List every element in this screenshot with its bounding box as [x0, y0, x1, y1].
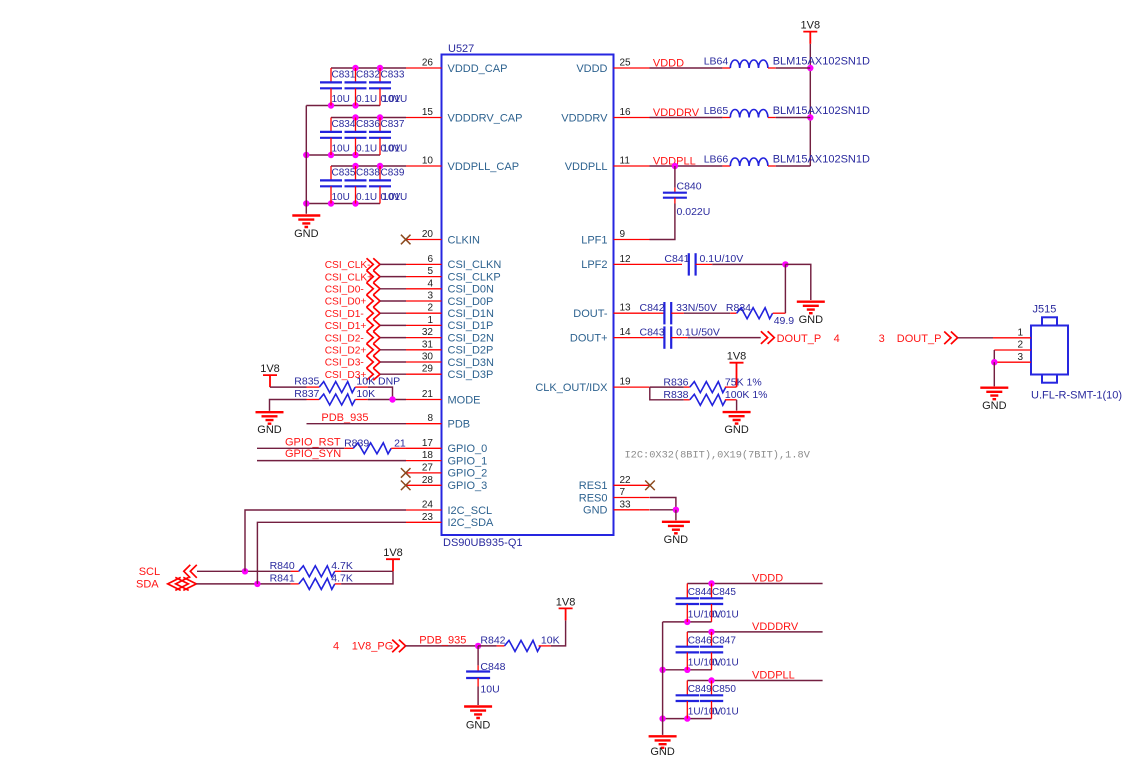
resistor R841 4.7K	[291, 583, 299, 585]
pin 32 CSI_D2N (left)	[406, 337, 442, 339]
capacitor C837	[379, 118, 381, 132]
svg-text:19: 19	[620, 377, 632, 388]
svg-text:C833: C833	[381, 70, 405, 81]
pin 27 GPIO_2 (left)	[406, 472, 442, 474]
svg-text:10K: 10K	[356, 388, 375, 400]
svg-text:20: 20	[422, 229, 434, 240]
wire CSI_CLK+ to pin	[380, 276, 406, 278]
svg-text:GND: GND	[466, 720, 491, 732]
wire pin19 to R836	[650, 386, 684, 388]
ground symbol RES0/GND	[662, 522, 690, 534]
pin 18 GPIO_1 (left)	[406, 460, 442, 462]
wire C848 to ground	[477, 687, 479, 706]
svg-text:7: 7	[620, 487, 626, 498]
svg-text:C839: C839	[381, 168, 405, 179]
svg-text:CSI_CLK-: CSI_CLK-	[325, 260, 371, 271]
svg-text:0.01U: 0.01U	[712, 658, 739, 669]
pin 8 PDB (left)	[406, 423, 442, 425]
capacitor C847	[711, 632, 713, 647]
svg-text:GPIO_1: GPIO_1	[448, 455, 488, 467]
svg-text:GPIO_3: GPIO_3	[448, 480, 488, 492]
svg-text:PDB_935: PDB_935	[321, 412, 368, 424]
svg-text:4: 4	[333, 640, 339, 652]
svg-text:27: 27	[422, 462, 434, 473]
svg-text:21: 21	[422, 389, 434, 400]
svg-text:33N/50V: 33N/50V	[676, 302, 717, 314]
wire R841 up to 1V8 node	[341, 571, 393, 584]
resistor R838 100K 1%	[684, 399, 690, 401]
svg-text:0.01U: 0.01U	[712, 706, 739, 717]
wire VDDPLL to LB66	[650, 165, 723, 167]
svg-text:C834: C834	[332, 119, 356, 130]
svg-text:10K: 10K	[541, 634, 560, 646]
svg-text:DOUT+: DOUT+	[570, 332, 608, 344]
pin 2 CSI_D1N (left)	[406, 312, 442, 314]
svg-text:23: 23	[422, 512, 434, 523]
svg-text:LPF2: LPF2	[581, 259, 607, 271]
wire left bus of top-left cap bank	[305, 106, 307, 214]
svg-text:3: 3	[427, 291, 433, 302]
pin 33 GND (right)	[614, 509, 650, 511]
capacitor C834	[330, 118, 332, 132]
ground symbol below R838	[723, 412, 751, 424]
svg-text:1V8: 1V8	[556, 596, 576, 608]
svg-text:U527: U527	[448, 43, 474, 55]
svg-text:CSI_CLKP: CSI_CLKP	[448, 271, 501, 283]
wire CSI_D0+ to pin	[380, 300, 406, 302]
wire left bus of bottom-right cap bank	[662, 622, 664, 735]
wire C841 to gnd corner	[712, 263, 785, 265]
svg-text:26: 26	[422, 58, 434, 69]
svg-text:C838: C838	[356, 168, 380, 179]
capacitor C831	[330, 68, 332, 82]
capacitor C839	[379, 166, 381, 180]
svg-text:CSI_D1+: CSI_D1+	[325, 321, 367, 332]
pin 14 DOUT+ (right)	[614, 337, 650, 339]
wire to LPF2 ground	[785, 264, 810, 300]
svg-text:PDB_935: PDB_935	[419, 634, 466, 646]
svg-text:11: 11	[620, 156, 631, 167]
svg-text:DOUT_P: DOUT_P	[777, 333, 822, 345]
ground symbol bottom-right bank	[649, 736, 677, 748]
svg-text:0.1U/10V: 0.1U/10V	[700, 253, 744, 265]
svg-text:GND: GND	[257, 424, 282, 436]
wire PDB_935 to pin 8	[307, 423, 407, 425]
svg-text:10U: 10U	[332, 192, 350, 203]
svg-text:CSI_D3P: CSI_D3P	[448, 369, 494, 381]
wire CSI_D2+ to pin	[380, 349, 406, 351]
wire bottom rail VDDPLL group	[663, 718, 712, 720]
junction dots group 3	[352, 163, 358, 169]
resistor R836 75K 1%	[684, 386, 690, 388]
svg-text:1V8: 1V8	[383, 547, 403, 559]
wire top rail group 3	[331, 165, 406, 167]
wire down to ground symbol	[675, 510, 677, 521]
svg-text:R836: R836	[663, 376, 688, 388]
junction dots VDDD group	[708, 580, 714, 586]
pin 9 LPF1 (right)	[614, 239, 650, 241]
svg-text:CLK_OUT/IDX: CLK_OUT/IDX	[535, 382, 608, 394]
svg-text:32: 32	[422, 327, 434, 338]
wire CSI_D0- to pin	[380, 288, 406, 290]
junction dots VDDPLL group	[708, 677, 714, 683]
wire SCL	[197, 570, 291, 572]
svg-text:GND: GND	[650, 746, 675, 758]
svg-text:1V8: 1V8	[801, 20, 821, 32]
wire R842 to 1V8	[551, 620, 566, 646]
junction dots group 1	[352, 65, 358, 71]
power symbol 1V8 (I2C pullups)	[386, 559, 400, 571]
ground symbol LPF2	[797, 302, 825, 314]
svg-text:GND: GND	[724, 424, 749, 436]
wire CSI_CLK- to pin	[380, 263, 406, 265]
pin 30 CSI_D3N (left)	[406, 361, 442, 363]
J515 pin 1	[993, 337, 1031, 339]
svg-text:C836: C836	[356, 119, 380, 130]
resistor R840 4.7K	[291, 570, 299, 572]
svg-text:C832: C832	[356, 70, 380, 81]
power symbol 1V8 (top right)	[803, 32, 817, 44]
svg-text:R838: R838	[663, 389, 688, 401]
wire J515 to ground	[993, 362, 995, 386]
junction dot LPF2 node	[782, 261, 788, 267]
svg-text:C845: C845	[712, 587, 736, 598]
svg-text:C840: C840	[677, 181, 702, 193]
pin 26 VDDD_CAP (left)	[406, 67, 442, 69]
ground symbol of top-left cap bank	[292, 216, 320, 228]
svg-text:0.1U: 0.1U	[356, 144, 377, 155]
resistor R834 49.9	[730, 312, 736, 314]
svg-text:LB66: LB66	[704, 154, 729, 166]
svg-text:C850: C850	[712, 684, 736, 695]
capacitor C835	[330, 166, 332, 180]
resistor R837 10K	[307, 399, 320, 401]
svg-text:C844: C844	[688, 587, 712, 598]
junction dot SDA riser	[254, 581, 260, 587]
svg-text:C837: C837	[381, 119, 405, 130]
wire top rail group 2	[331, 117, 406, 119]
svg-text:CLKIN: CLKIN	[448, 234, 480, 246]
capacitor C848 10U	[477, 646, 479, 666]
svg-text:15: 15	[422, 107, 434, 118]
svg-text:10V: 10V	[383, 192, 401, 203]
svg-text:4: 4	[427, 278, 433, 289]
svg-text:9: 9	[620, 229, 626, 240]
wire bottom rail VDDD group	[663, 621, 712, 623]
svg-text:LPF1: LPF1	[581, 234, 607, 246]
pin 4 CSI_D0N (left)	[406, 288, 442, 290]
svg-text:VDDD: VDDD	[752, 573, 783, 585]
svg-text:CSI_D1P: CSI_D1P	[448, 320, 494, 332]
svg-text:1V8: 1V8	[260, 363, 280, 375]
svg-text:PDB: PDB	[448, 419, 471, 431]
capacitor C849	[686, 681, 688, 696]
junction dots group 2	[352, 114, 358, 120]
svg-text:CSI_CLKN: CSI_CLKN	[448, 259, 502, 271]
pin 31 CSI_D2P (left)	[406, 349, 442, 351]
ground symbol J515	[980, 388, 1008, 400]
svg-text:1: 1	[427, 315, 433, 326]
wire SDA	[196, 583, 290, 585]
resistor R839 21	[344, 447, 353, 449]
no-connect X on pin 27 GPIO_2	[401, 468, 411, 478]
svg-text:VDDDRV_CAP: VDDDRV_CAP	[448, 112, 523, 124]
svg-text:C842: C842	[640, 302, 665, 314]
svg-text:10V: 10V	[383, 94, 401, 105]
power symbol 1V8 above R836	[730, 363, 744, 387]
svg-text:0.01U: 0.01U	[712, 609, 739, 620]
svg-text:10: 10	[422, 156, 434, 167]
junction dots VDDDRV group	[708, 629, 714, 635]
svg-text:13: 13	[620, 303, 632, 314]
svg-text:31: 31	[422, 339, 434, 350]
svg-text:CSI_D2P: CSI_D2P	[448, 345, 494, 357]
svg-text:2: 2	[427, 303, 433, 314]
power symbol 1V8 (R842)	[559, 608, 573, 620]
pin 21 MODE (left)	[406, 399, 442, 401]
svg-text:33: 33	[620, 499, 632, 510]
capacitor C845	[711, 584, 713, 599]
junction dot LB64 output	[807, 65, 813, 71]
pin 13 DOUT- (right)	[614, 312, 650, 314]
svg-text:8: 8	[427, 413, 433, 424]
svg-text:R835: R835	[294, 376, 319, 388]
svg-text:29: 29	[422, 364, 434, 375]
wire R837 to MODE pin	[368, 399, 406, 401]
junction dot SCL riser	[242, 568, 248, 574]
wire 1V8 to R835	[270, 386, 307, 388]
svg-text:10U: 10U	[332, 144, 350, 155]
svg-text:CSI_CLK+: CSI_CLK+	[325, 272, 373, 283]
off-page connector DOUT_P (output)	[761, 331, 768, 344]
svg-text:1V8: 1V8	[727, 351, 747, 363]
pin 15 VDDDRV_CAP (left)	[406, 117, 442, 119]
svg-text:R841: R841	[270, 572, 295, 584]
pin 28 GPIO_3 (left)	[406, 484, 442, 486]
pin 19 CLK_OUT/IDX (right)	[614, 386, 650, 388]
ground symbol (MODE)	[256, 412, 284, 424]
wire top rail group 1	[331, 67, 406, 69]
no-connect X on pin 28 GPIO_3	[401, 481, 411, 491]
svg-text:0.1U/50V: 0.1U/50V	[676, 327, 720, 339]
wire bottom rail group 1	[306, 105, 380, 107]
svg-text:C831: C831	[332, 70, 356, 81]
svg-text:R842: R842	[480, 634, 505, 646]
svg-text:0.022U: 0.022U	[677, 206, 711, 218]
svg-text:2: 2	[1017, 340, 1023, 351]
junction dot LB65 output	[807, 114, 813, 120]
pin 22 RES1 (right)	[614, 484, 650, 486]
svg-text:SCL: SCL	[139, 566, 160, 578]
svg-text:GND: GND	[664, 534, 689, 546]
svg-text:10U: 10U	[480, 684, 499, 696]
no-connect X on pin 20 CLKIN	[401, 235, 411, 245]
wire bottom rail group 3	[306, 203, 380, 205]
wire GND to R837	[270, 400, 307, 411]
svg-text:RES0: RES0	[579, 492, 608, 504]
resistor R835 10K DNP	[307, 386, 320, 388]
svg-text:1V8_PG: 1V8_PG	[352, 640, 394, 652]
svg-text:GPIO_SYN: GPIO_SYN	[285, 448, 341, 460]
svg-text:CSI_D2N: CSI_D2N	[448, 332, 495, 344]
wire R838 to ground	[736, 400, 738, 411]
svg-text:10V: 10V	[383, 144, 401, 155]
svg-text:C835: C835	[332, 168, 356, 179]
svg-text:4.7K: 4.7K	[331, 560, 353, 572]
wire SCL riser to pin 24	[245, 510, 406, 571]
svg-text:C848: C848	[480, 661, 505, 673]
wire VDDDRV rail	[687, 631, 822, 633]
svg-text:CSI_D1N: CSI_D1N	[448, 308, 495, 320]
capacitor C850	[711, 681, 713, 696]
pin 25 VDDD (right)	[614, 67, 650, 69]
svg-text:GPIO_0: GPIO_0	[448, 443, 488, 455]
wire junction down to R834	[784, 264, 786, 313]
svg-text:CSI_D0P: CSI_D0P	[448, 296, 494, 308]
power symbol 1V8 (MODE)	[263, 375, 277, 387]
capacitor C836	[355, 118, 357, 132]
wire 1V8_PG to junction	[406, 645, 479, 647]
wire CSI_D1- to pin	[380, 312, 406, 314]
wire VDDD to LB64	[650, 67, 723, 69]
wire GND pin 33	[650, 509, 676, 511]
svg-text:24: 24	[422, 500, 434, 511]
junction dot VDDPLL / C840	[672, 163, 678, 169]
svg-text:DOUT_P: DOUT_P	[897, 333, 942, 345]
svg-text:VDDPLL_CAP: VDDPLL_CAP	[448, 161, 520, 173]
J515 pin 3	[994, 361, 1031, 363]
wire pin2 to pin3	[993, 350, 995, 362]
capacitor C840 0.022U	[674, 166, 676, 188]
svg-text:SDA: SDA	[136, 579, 159, 591]
svg-text:CSI_D2-: CSI_D2-	[325, 333, 364, 344]
svg-text:GPIO_RST: GPIO_RST	[285, 436, 341, 448]
svg-text:CSI_D3N: CSI_D3N	[448, 357, 495, 369]
capacitor C846	[686, 632, 688, 647]
svg-text:VDDDRV: VDDDRV	[752, 621, 799, 633]
svg-text:BLM15AX102SN1D: BLM15AX102SN1D	[773, 105, 870, 117]
svg-text:DOUT-: DOUT-	[573, 308, 608, 320]
svg-text:22: 22	[620, 475, 632, 486]
svg-text:J515: J515	[1033, 304, 1057, 316]
svg-text:U.FL-R-SMT-1(10): U.FL-R-SMT-1(10)	[1031, 390, 1122, 402]
svg-text:DS90UB935-Q1: DS90UB935-Q1	[443, 537, 523, 549]
no-connect X on pin 22 RES1	[645, 481, 655, 491]
ground symbol C848	[464, 707, 492, 719]
svg-text:14: 14	[620, 327, 632, 338]
svg-text:CSI_D0+: CSI_D0+	[325, 297, 367, 308]
resistor R842 10K	[478, 645, 497, 647]
pin 1 CSI_D1P (left)	[406, 324, 442, 326]
capacitor C832	[355, 68, 357, 82]
svg-text:CSI_D2+: CSI_D2+	[325, 346, 367, 357]
svg-text:CSI_D3-: CSI_D3-	[325, 358, 364, 369]
svg-text:10U: 10U	[332, 94, 350, 105]
wire R840 to 1V8	[341, 570, 393, 572]
svg-text:75K 1%: 75K 1%	[725, 376, 762, 388]
svg-text:R840: R840	[270, 560, 295, 572]
pin 6 CSI_CLKN (left)	[406, 263, 442, 265]
wire GPIO_SYN to pin 18	[257, 460, 406, 462]
wire pin19 corner to R838	[650, 387, 684, 400]
off-page connector DOUT_P into J515	[944, 332, 951, 345]
wire CSI_D3- to pin	[380, 361, 406, 363]
svg-text:C843: C843	[640, 327, 665, 339]
svg-text:R837: R837	[294, 388, 319, 400]
svg-text:C847: C847	[712, 636, 736, 647]
wire C840 to LPF1 pin 9	[650, 204, 675, 240]
wire VDDDRV to LB65	[650, 117, 723, 119]
wire bottom rail VDDDRV group	[663, 669, 712, 671]
junction dot MODE	[389, 396, 395, 402]
pin 24 I2C_SCL (left)	[406, 509, 442, 511]
svg-text:VDDPLL: VDDPLL	[565, 161, 608, 173]
svg-text:MODE: MODE	[448, 394, 481, 406]
svg-text:GND: GND	[982, 400, 1007, 412]
svg-text:I2C_SCL: I2C_SCL	[448, 505, 493, 517]
pin 23 I2C_SDA (left)	[406, 521, 442, 523]
svg-text:CSI_D1-: CSI_D1-	[325, 309, 364, 320]
wire CSI_D1+ to pin	[380, 324, 406, 326]
svg-text:5: 5	[427, 266, 433, 277]
svg-text:16: 16	[620, 107, 632, 118]
ferrite bead LB66 BLM15AX102SN1D	[722, 165, 730, 167]
svg-text:10K DNP: 10K DNP	[356, 376, 400, 388]
svg-text:GND: GND	[294, 228, 319, 240]
svg-text:BLM15AX102SN1D: BLM15AX102SN1D	[773, 56, 870, 68]
pin 7 RES0 (right)	[614, 497, 650, 499]
pin 5 CSI_CLKP (left)	[406, 276, 442, 278]
svg-text:21: 21	[394, 437, 406, 449]
IC U527 DS90UB935-Q1 serializer chip body	[442, 55, 614, 536]
svg-text:I2C:0X32(8BIT),0X19(7BIT),1.8V: I2C:0X32(8BIT),0X19(7BIT),1.8V	[625, 450, 811, 462]
svg-text:17: 17	[422, 438, 434, 449]
wire CSI_D3+ to pin	[380, 373, 406, 375]
J515 pin 2	[994, 349, 1031, 351]
svg-text:C841: C841	[664, 253, 689, 265]
pin 20 CLKIN (left)	[406, 239, 442, 241]
capacitor C833	[379, 68, 381, 82]
svg-text:CSI_D0N: CSI_D0N	[448, 284, 495, 296]
wire VDDD rail	[687, 583, 822, 585]
svg-text:GND: GND	[799, 314, 824, 326]
svg-text:4.7K: 4.7K	[331, 572, 353, 584]
svg-text:VDDD: VDDD	[576, 63, 607, 75]
svg-text:CSI_D0-: CSI_D0-	[325, 285, 364, 296]
svg-text:LB64: LB64	[704, 56, 729, 68]
svg-text:18: 18	[422, 450, 434, 461]
pin 17 GPIO_0 (left)	[406, 447, 442, 449]
wire RES0 to GND pin net	[650, 498, 676, 510]
pin 12 LPF2 (right)	[614, 263, 650, 265]
wire C842 to R834	[684, 312, 730, 314]
junction dot J515 pin3	[991, 359, 997, 365]
wire CSI_D2- to pin	[380, 337, 406, 339]
wire GPIO_RST to R839	[257, 447, 344, 449]
svg-text:100K 1%: 100K 1%	[725, 389, 768, 401]
svg-text:3: 3	[1017, 352, 1023, 363]
svg-text:0.1U: 0.1U	[356, 192, 377, 203]
capacitor C838	[355, 166, 357, 180]
capacitor C844	[686, 584, 688, 599]
pin 10 VDDPLL_CAP (left)	[406, 165, 442, 167]
svg-text:I2C_SDA: I2C_SDA	[448, 517, 495, 529]
wire SDA riser to pin 23	[257, 522, 406, 584]
capacitor C842 33N/50V	[650, 312, 665, 314]
svg-text:12: 12	[620, 254, 632, 265]
capacitor C843 0.1U/50V	[650, 337, 665, 339]
wire R835 down to MODE	[368, 387, 393, 399]
